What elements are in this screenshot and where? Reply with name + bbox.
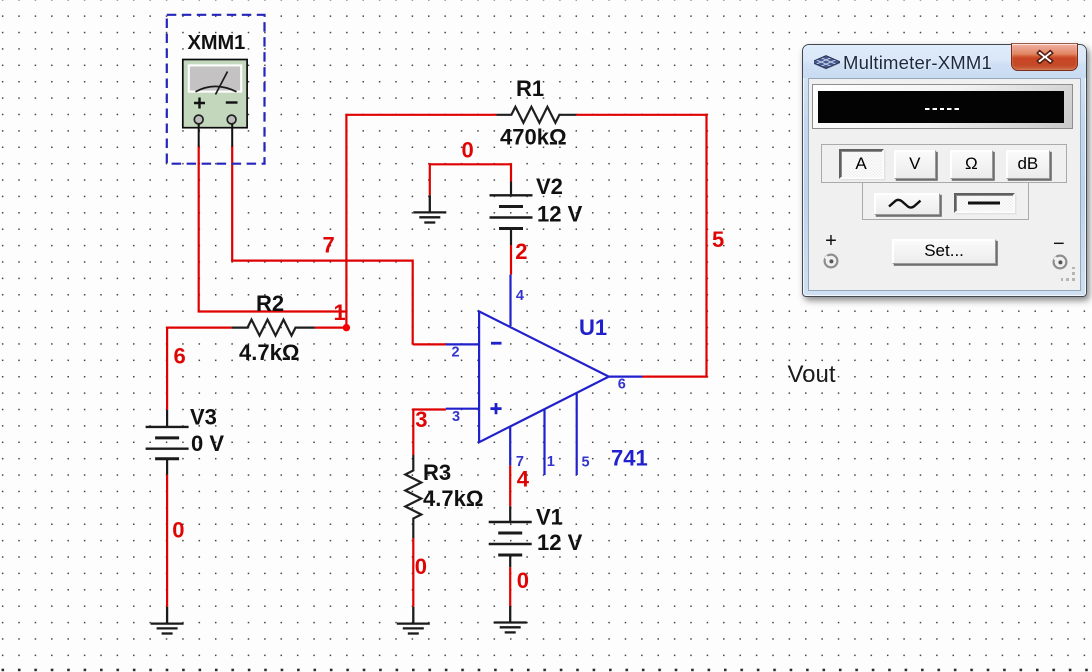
op-amp minus input symbol (491, 342, 502, 345)
resistor R1 (497, 107, 577, 123)
wire: R2 right lead to node 1 junction (315, 327, 347, 329)
wire: R1 right horizontal to node 5 corner (576, 114, 707, 116)
waveform group box (862, 183, 1029, 221)
svg-text:0: 0 (462, 138, 474, 163)
ground for V3 (151, 607, 184, 634)
wire: node 7 into op-amp inverting input (413, 343, 446, 345)
svg-text:741: 741 (611, 446, 648, 471)
readout display bezel (812, 84, 1073, 130)
node 1 junction dot (343, 324, 350, 331)
wire: XMM1 - terminal down (231, 146, 233, 261)
wire: V1 bottom to ground (509, 567, 511, 606)
svg-text:1: 1 (334, 300, 346, 325)
plus terminal jack (822, 252, 840, 270)
multimeter needle and scale arc (196, 72, 237, 95)
svg-text:2: 2 (515, 239, 527, 264)
bottom clipped dot row (0, 668, 1092, 672)
svg-text:470kΩ: 470kΩ (500, 125, 567, 150)
ground for V1 (494, 606, 527, 632)
op-amp pin 2 lead (inverting input) (446, 343, 479, 345)
svg-text:4.7kΩ: 4.7kΩ (239, 340, 299, 365)
wire: V3 bottom to ground (166, 475, 168, 607)
ground for R3 (397, 607, 430, 634)
battery V1 (489, 506, 532, 567)
wire: op-amp output to node 5 vertical (642, 376, 707, 378)
svg-text:4: 4 (517, 467, 530, 492)
svg-text:0 V: 0 V (191, 431, 224, 456)
svg-text:0: 0 (415, 554, 427, 579)
svg-text:12 V: 12 V (537, 202, 583, 227)
multimeter XMM1 instrument body (183, 60, 247, 128)
svg-text:1: 1 (547, 454, 555, 470)
svg-text:V2: V2 (536, 174, 563, 199)
wire: XMM1 + terminal down to node 1 row (198, 146, 200, 312)
wire: R1 left horizontal lead wire (345, 114, 496, 116)
multimeter XMM1 dashed selection box (167, 15, 265, 164)
op-amp pin 5 lead (576, 393, 578, 475)
svg-text:6: 6 (618, 377, 626, 393)
button DC (checked) (954, 193, 1015, 213)
multimeter dialog window Multimeter-XMM1 (802, 44, 1087, 298)
svg-text:R1: R1 (516, 76, 544, 101)
op-amp pin 4 lead (V+) (509, 275, 511, 326)
dialog title bar (803, 45, 1086, 78)
minus terminal label (1053, 233, 1065, 256)
dialog close button (1011, 43, 1078, 71)
wire: node 0 vertical down to V2 ground symbol (429, 163, 431, 195)
wire: node 7 horizontal (231, 260, 413, 262)
wire: R2 left lead to V3 corner (166, 327, 232, 329)
wire: R1 left vertical down to node 1 junction (345, 115, 347, 328)
svg-text:6: 6 (174, 344, 186, 369)
svg-text:Vout: Vout (788, 361, 836, 388)
wire: R3 bottom to ground (412, 538, 414, 607)
button Ohm (950, 150, 993, 179)
svg-text:0: 0 (517, 568, 529, 593)
battery V2 (490, 182, 533, 246)
svg-text:V1: V1 (536, 505, 563, 530)
op-amp pin 6 lead (output) (609, 376, 643, 378)
resize grip (1061, 267, 1077, 283)
resistor R3 (405, 455, 421, 538)
wire: node 6 vertical from R2 corner down to V3 (166, 327, 168, 410)
ground for V2 net 0 (413, 195, 446, 222)
svg-text:XMM1: XMM1 (188, 32, 246, 54)
wire: node 0 horizontal above V2 to ground (430, 163, 511, 165)
svg-text:3: 3 (415, 407, 427, 432)
svg-text:2: 2 (452, 345, 460, 361)
button dB (1006, 150, 1050, 179)
dialog client area (808, 78, 1082, 292)
svg-text:U1: U1 (579, 315, 607, 340)
minus terminal jack (1051, 253, 1069, 271)
svg-text:R2: R2 (256, 291, 284, 316)
op-amp U1 triangle (479, 311, 609, 442)
button V (894, 150, 937, 179)
svg-text:3: 3 (452, 409, 460, 425)
resistor R2 (232, 320, 315, 336)
black readout screen (818, 91, 1064, 123)
op-amp pin 7 lead (V-) (509, 426, 511, 465)
button AC (sine) (874, 193, 940, 215)
wire: V2 top lead wire (510, 163, 512, 181)
battery V3 (146, 410, 189, 475)
wire: node 3 horizontal into op-amp non-inverting input (413, 408, 446, 410)
svg-text:4.7kΩ: 4.7kΩ (423, 486, 483, 511)
button A (checked) (839, 149, 884, 179)
wire: node 1 horizontal from XMM1 + to R1 branch (198, 310, 347, 312)
svg-text:5: 5 (712, 227, 724, 252)
mode group box (821, 144, 1066, 183)
wire: node 3 vertical down to R3 top (412, 408, 414, 455)
op-amp pin 1 lead (543, 409, 545, 475)
multimeter - terminal marking (226, 101, 238, 103)
dialog icon (814, 51, 840, 71)
multimeter terminal stub wires (199, 124, 233, 147)
svg-text:0: 0 (172, 518, 184, 543)
wire: node 5 vertical down to op-amp output (705, 114, 707, 377)
wire: node 7 vertical down to pin 2 row (412, 260, 414, 345)
wire: op-amp pin 7 down to V1 top (509, 465, 511, 506)
svg-text:V3: V3 (190, 405, 217, 430)
plus terminal label (825, 230, 837, 253)
op-amp plus input symbol (490, 403, 501, 414)
svg-text:4: 4 (516, 288, 524, 304)
multimeter terminal posts (194, 115, 203, 124)
svg-text:7: 7 (323, 233, 335, 258)
wire: V2 bottom to op-amp pin 4 (510, 245, 512, 275)
svg-text:5: 5 (582, 455, 590, 471)
button Set... (892, 239, 996, 264)
svg-text:R3: R3 (423, 460, 451, 485)
op-amp pin 3 lead (non-inverting input) (446, 408, 479, 410)
svg-text:12 V: 12 V (537, 530, 583, 555)
multimeter + terminal marking (194, 98, 205, 109)
readout dashes (925, 108, 961, 111)
